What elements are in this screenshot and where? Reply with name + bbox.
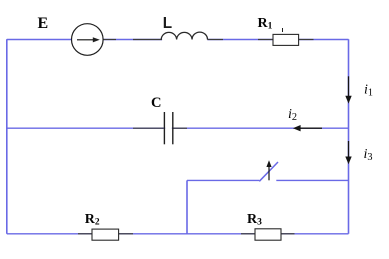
resistor R2 xyxy=(92,229,119,240)
current arrow i1 xyxy=(348,76,350,97)
wire: left vertical side of outer loop xyxy=(6,39,8,234)
wire: right vertical side xyxy=(348,39,350,234)
wire: vertical connecting switch branch to bottom wire xyxy=(186,180,188,233)
wire: middle horizontal (C branch) xyxy=(7,127,349,129)
source E (circle) xyxy=(72,24,104,56)
current arrow i2 xyxy=(299,127,322,129)
wire: switch branch right segment xyxy=(276,179,348,181)
capacitor C plates xyxy=(165,126,172,131)
svg-text:C: C xyxy=(151,95,161,111)
wire: switch branch left segment xyxy=(187,179,259,181)
svg-text:E: E xyxy=(38,15,49,32)
switch blade (diagonal) xyxy=(259,162,278,181)
wire: dark lead stubs on top branch xyxy=(104,39,314,41)
wire: dark lead stubs on capacitor branch xyxy=(133,127,187,129)
wire: dark lead stubs on bottom branch xyxy=(78,233,295,235)
svg-text:L: L xyxy=(163,15,172,32)
current arrow i3 xyxy=(348,141,350,158)
switch actuating arrow xyxy=(268,166,270,181)
tick above R1 xyxy=(282,28,284,32)
resistor R3 xyxy=(255,229,281,240)
arrow inside source E xyxy=(77,39,93,41)
wire: top horizontal (E-L-R1 branch) xyxy=(7,39,349,41)
resistor R1 xyxy=(273,34,299,45)
inductor L (coil) xyxy=(162,38,207,41)
wire: bottom horizontal (R2-R3 branch) xyxy=(7,233,349,235)
